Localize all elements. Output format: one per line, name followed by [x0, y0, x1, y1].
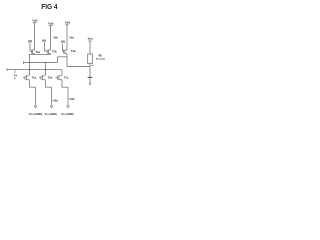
svg-text:FIG 4: FIG 4: [41, 2, 58, 11]
transistor T3 body bracket: [65, 50, 67, 54]
wire T3 source down to output rail: [66, 54, 68, 67]
svg-text:(H): (H): [28, 39, 32, 43]
transistor T1c gate bar: [57, 76, 59, 80]
svg-text:T3a: T3a: [71, 49, 76, 53]
wire supply2 drop to T2b drain: [50, 26, 52, 50]
terminal tick rail2 left: [23, 61, 25, 64]
transistor T1a gate lead: [23, 77, 25, 79]
svg-text:22a: 22a: [53, 98, 58, 102]
leader tick at output junction: [91, 64, 93, 67]
transistor T1a source jog: [30, 80, 36, 106]
rail2 middle input rail: [24, 62, 58, 64]
transistor T1b body bracket: [42, 76, 45, 80]
svg-text:T1c: T1c: [64, 75, 69, 79]
transistor T1a body bracket: [26, 76, 29, 80]
transistor T2b body bracket: [48, 50, 50, 54]
transistor T1c gate lead: [56, 77, 58, 79]
svg-text:RB: RB: [99, 56, 103, 58]
terminal Vout T-bar: [88, 40, 91, 42]
transistor T2a source to rail1: [34, 53, 36, 56]
wire below capacitor: [89, 78, 91, 84]
leader tick input label: [14, 70, 16, 73]
transistor T1c body bracket: [59, 76, 62, 80]
svg-text:(H): (H): [42, 38, 46, 42]
wire column x29.5 rail1 to rail3: [29, 54, 31, 69]
transistor T1b source jog: [46, 80, 52, 106]
junction node rail3/x45.5: [45, 69, 47, 71]
transistor T2b gate bar: [46, 50, 48, 54]
transistor T3 gate wire from (H)3: [63, 43, 64, 51]
transistor T2b gate wire from (H)2: [45, 42, 48, 51]
terminal tick input left: [6, 68, 8, 71]
capacitor plate at output: [88, 76, 93, 78]
svg-text:T2b: T2b: [52, 50, 57, 54]
transistor T1c source jog: [62, 80, 68, 106]
svg-text:T1a: T1a: [32, 75, 37, 79]
svg-text:T2a: T2a: [35, 50, 40, 54]
wire column x45.5 rail2 to T1b: [45, 63, 47, 76]
svg-text:Vss (GND): Vss (GND): [45, 112, 57, 116]
svg-text:(Precharge): (Precharge): [96, 59, 105, 61]
svg-text:(H): (H): [61, 39, 65, 43]
wire supply3 drop to T3 drain: [66, 25, 68, 50]
ground foot below capacitor: [89, 83, 91, 85]
transistor T2b source to rail1: [50, 53, 52, 56]
arrow T1b bottom: [50, 105, 53, 107]
rail3 input rail: [7, 69, 62, 71]
svg-text:24b: 24b: [53, 35, 58, 39]
junction node rail2/x29.5: [29, 62, 31, 64]
transistor T1b gate bar: [40, 76, 42, 80]
wire riser x57.4 rail2 to T3 source tap: [56, 57, 58, 63]
arrow T1a bottom: [34, 105, 37, 107]
wire T1a drain drop: [29, 70, 31, 75]
supply terminal Vdd2 T-bar: [49, 25, 53, 27]
transistor T2a body bracket: [33, 50, 35, 54]
wire RB bottom to output node: [89, 63, 91, 66]
svg-text:Vdd: Vdd: [32, 19, 37, 23]
svg-text:Vdd: Vdd: [65, 20, 70, 24]
svg-text:Vss (GND): Vss (GND): [61, 112, 74, 116]
transistor T2a gate wire from (H)1: [30, 42, 31, 51]
svg-text:Vout: Vout: [88, 37, 93, 40]
wire output node down to capacitor: [89, 67, 91, 78]
wire T1c drain drop: [61, 70, 63, 75]
svg-text:Vdd: Vdd: [48, 21, 53, 25]
wire output rail: [67, 66, 90, 68]
rail1 top source rail: [29, 53, 52, 55]
transistor T3 gate bar: [63, 50, 65, 54]
supply terminal Vdd1 T-bar: [33, 22, 36, 24]
junction node rail2/x45.5: [45, 62, 46, 63]
svg-text:Vss (GND): Vss (GND): [29, 112, 43, 116]
arrow T1c bottom: [67, 105, 70, 107]
svg-text:24a: 24a: [69, 35, 74, 39]
transistor T1a gate bar: [24, 76, 26, 80]
wire supply1 drop to T2a drain: [34, 23, 36, 50]
svg-text:22b: 22b: [70, 97, 75, 101]
transistor T1b gate lead: [39, 77, 41, 79]
junction node rail3/x29.5: [29, 69, 31, 71]
wire Vout to resistor RB: [89, 41, 91, 54]
svg-text:T1b: T1b: [48, 75, 53, 79]
transistor T2a gate bar: [30, 50, 32, 54]
wire T3 source tap horizontal: [57, 56, 67, 58]
resistor RB box: [88, 54, 93, 63]
supply terminal Vdd3 T-bar: [65, 24, 68, 26]
